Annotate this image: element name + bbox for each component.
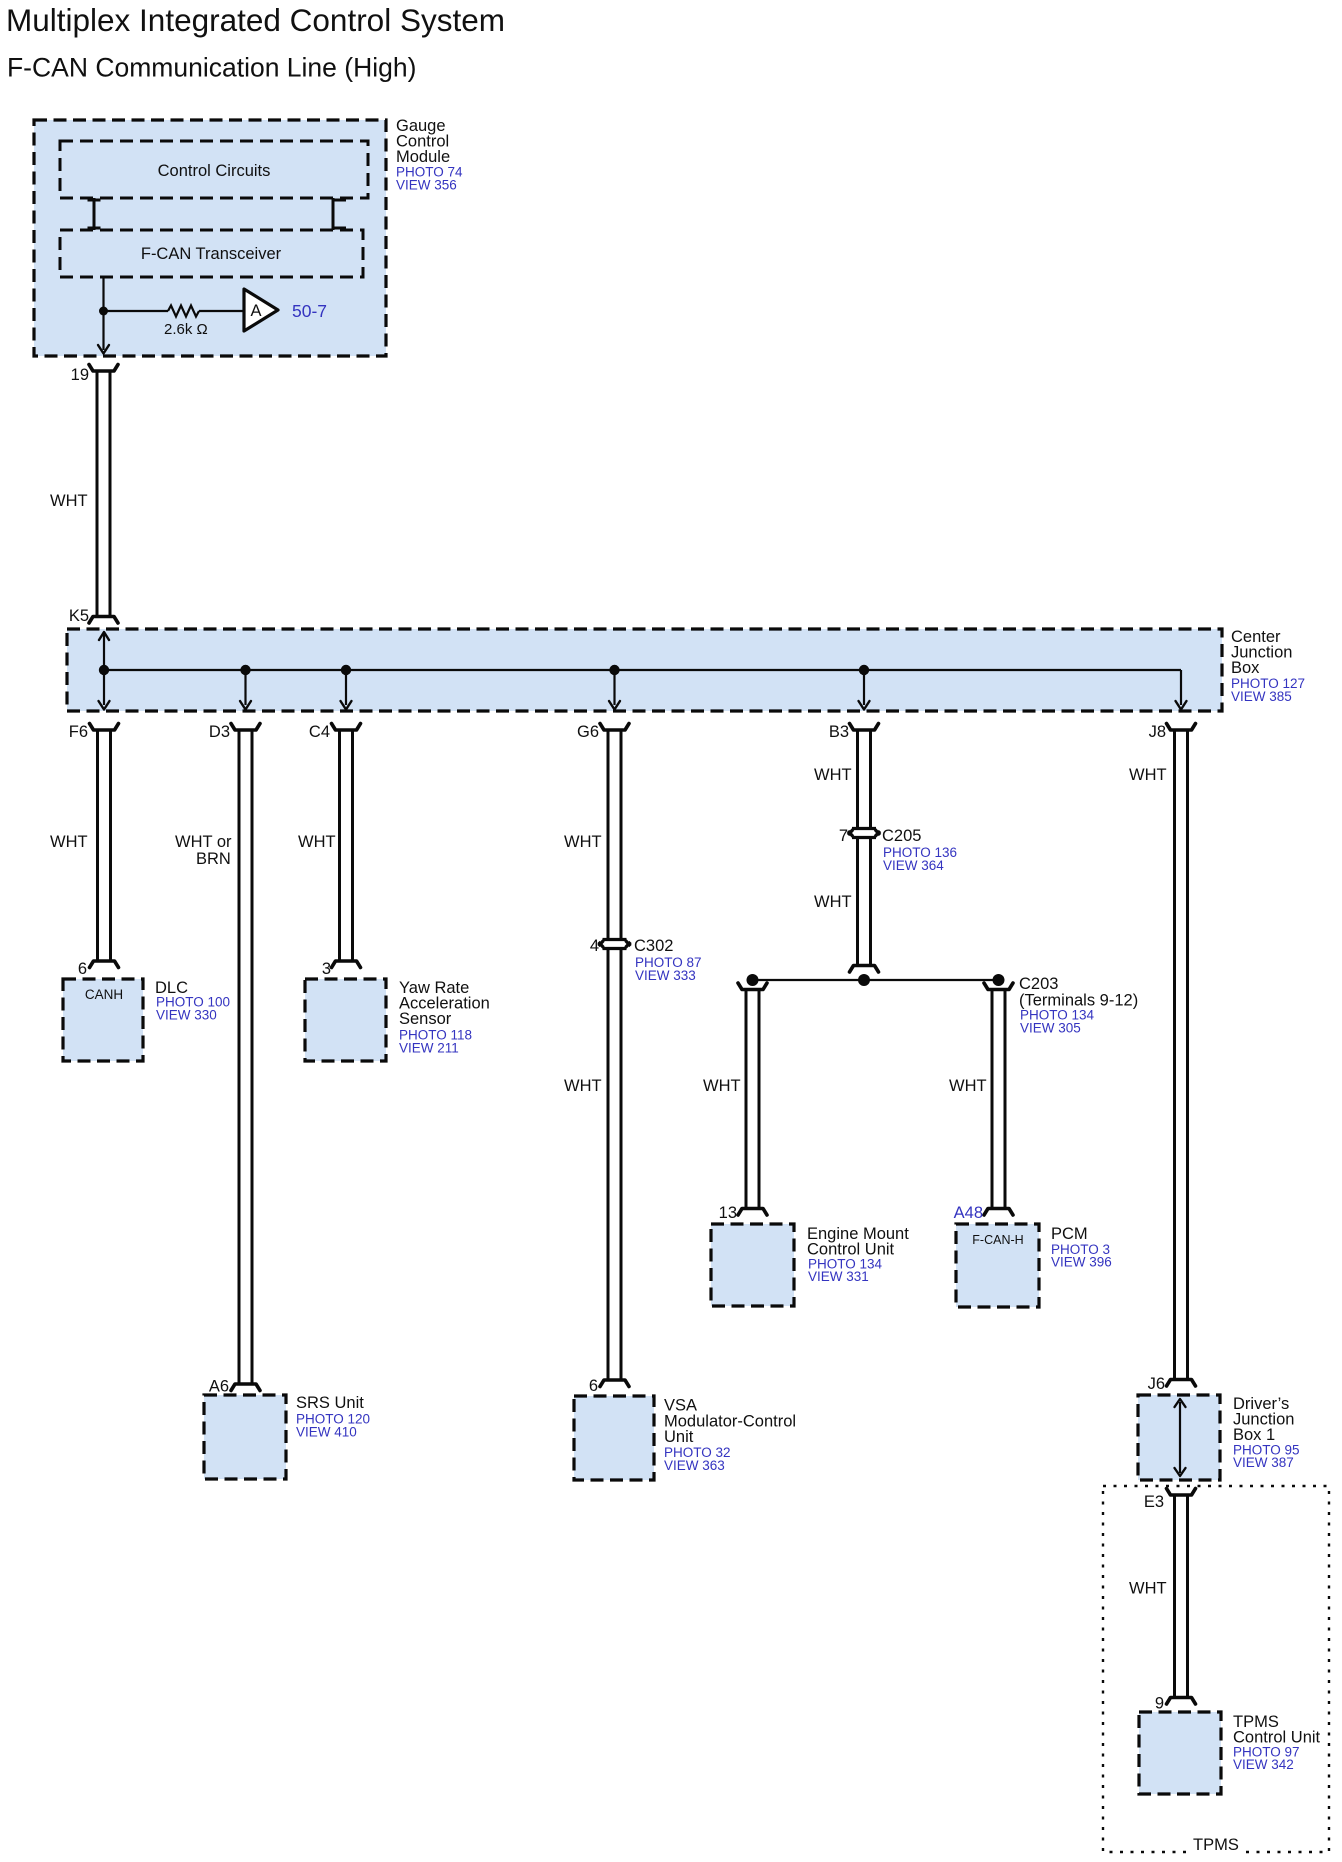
D3 exit arrow — [240, 670, 251, 710]
connector top PCM branch — [984, 983, 1013, 990]
svg-text:G6: G6 — [577, 723, 599, 741]
wire label WHT (C4) — [298, 833, 336, 851]
wire label WHT (J8) — [1129, 766, 1167, 784]
wire label WHT (PCM) — [949, 1077, 987, 1095]
TPMS control unit label — [1233, 1713, 1321, 1772]
pin 6 label VSA — [589, 1377, 598, 1395]
center junction box label — [1231, 628, 1305, 704]
svg-text:VIEW 356: VIEW 356 — [396, 178, 457, 193]
resistor 2.6k ohm — [164, 306, 208, 339]
connector top G6 — [600, 724, 629, 731]
wire label WHT (F6) — [50, 833, 88, 851]
svg-text:C4: C4 — [309, 723, 330, 741]
wire F6 to DLC (WHT) — [98, 730, 111, 961]
svg-text:WHT: WHT — [564, 833, 602, 851]
svg-text:BRN: BRN — [196, 850, 231, 868]
svg-text:PCM: PCM — [1051, 1225, 1088, 1243]
pin A6 label — [209, 1378, 229, 1396]
pin 13 label — [719, 1204, 737, 1222]
PCM label — [1051, 1225, 1112, 1270]
node junction dot — [99, 307, 108, 316]
connector top B3 — [850, 724, 879, 731]
internal connector right (bracket) — [333, 198, 346, 230]
svg-text:4: 4 — [590, 937, 599, 955]
pin 3 label — [322, 960, 331, 978]
svg-text:WHT: WHT — [1129, 766, 1167, 784]
svg-text:Box: Box — [1231, 659, 1260, 677]
svg-text:SRS Unit: SRS Unit — [296, 1394, 364, 1412]
svg-text:7: 7 — [839, 827, 848, 845]
yaw rate acceleration sensor label — [399, 979, 490, 1056]
wire label WHT or BRN — [175, 833, 232, 868]
svg-text:Module: Module — [396, 148, 450, 166]
internal pass-through arrow — [1175, 1399, 1186, 1476]
junction dot G6 — [609, 665, 619, 675]
svg-text:F-CAN Transceiver: F-CAN Transceiver — [141, 245, 282, 263]
wire junction down to module edge — [98, 311, 109, 354]
connector bottom pin A48 — [984, 1209, 1013, 1216]
junction dot engine branch — [747, 974, 759, 986]
connector bottom pin 3 yaw — [332, 961, 361, 968]
C302 label — [634, 937, 702, 983]
wire to resistor — [104, 310, 169, 312]
C205 label — [882, 827, 957, 873]
wire from transceiver down — [102, 277, 104, 311]
wire C205 to junction (WHT) — [858, 838, 871, 966]
pin D3 label — [209, 723, 230, 741]
pin J8 label — [1149, 723, 1166, 741]
pin K5 label — [69, 607, 89, 625]
wire B3 to C205 (WHT) — [858, 730, 871, 829]
wire label WHT (B3 upper) — [814, 766, 852, 784]
pin 19 label — [71, 366, 89, 384]
svg-text:WHT: WHT — [949, 1077, 987, 1095]
in-line connector C205 pin 7 — [848, 829, 880, 838]
pin 6 label — [78, 960, 87, 978]
pin 9 label — [1155, 1695, 1164, 1713]
svg-text:J6: J6 — [1148, 1375, 1165, 1393]
junction dot K5/F6 — [99, 665, 109, 675]
pin C4 label — [309, 723, 330, 741]
control circuits block — [60, 141, 368, 198]
svg-text:VIEW 305: VIEW 305 — [1020, 1021, 1081, 1036]
junction dot C203 — [993, 974, 1005, 986]
svg-text:Control Circuits: Control Circuits — [158, 162, 271, 180]
svg-text:VIEW 363: VIEW 363 — [664, 1458, 725, 1473]
connector top engine branch — [738, 983, 767, 990]
connector top at pin 19 — [89, 365, 118, 372]
svg-text:6: 6 — [589, 1377, 598, 1395]
svg-text:WHT: WHT — [564, 1077, 602, 1095]
svg-text:VIEW 385: VIEW 385 — [1231, 689, 1292, 704]
svg-text:Unit: Unit — [664, 1428, 694, 1446]
svg-text:C205: C205 — [882, 827, 921, 845]
PCM box — [956, 1224, 1039, 1307]
svg-text:19: 19 — [71, 366, 89, 384]
wire label WHT (G6 lower) — [564, 1077, 602, 1095]
C4 exit arrow — [341, 670, 352, 710]
DLC label — [155, 979, 230, 1023]
svg-text:A48: A48 — [954, 1204, 983, 1222]
svg-text:D3: D3 — [209, 723, 230, 741]
junction dot D3 — [240, 665, 250, 675]
F-CAN transceiver block — [60, 230, 363, 277]
svg-text:VIEW 211: VIEW 211 — [399, 1041, 459, 1056]
center junction box — [67, 629, 1222, 711]
DLC box — [63, 979, 143, 1061]
connector bottom pin 6 DLC — [90, 961, 119, 968]
svg-text:F-CAN Communication Line (High: F-CAN Communication Line (High) — [7, 53, 416, 83]
gauge control module box — [34, 120, 386, 356]
wire resistor to amplifier — [199, 310, 244, 312]
pin B3 label — [829, 723, 849, 741]
svg-text:WHT: WHT — [50, 492, 88, 510]
wire C4 to yaw sensor (WHT) — [340, 730, 353, 961]
pin 4 label — [590, 937, 599, 955]
wire G6 to C302 (WHT) — [608, 730, 621, 940]
wire label WHT (TPMS) — [1129, 1580, 1167, 1598]
svg-text:TPMS: TPMS — [1193, 1836, 1239, 1854]
wire D3 to SRS (WHT or BRN) — [239, 730, 252, 1384]
K5 entry arrow — [99, 632, 109, 670]
wire to engine mount control unit (WHT) — [746, 990, 759, 1209]
pin A48 label — [954, 1204, 983, 1222]
svg-text:VIEW 396: VIEW 396 — [1051, 1255, 1112, 1270]
pin E3 label — [1144, 1493, 1164, 1511]
junction dot C4 — [341, 665, 351, 675]
wire label WHT — [50, 492, 88, 510]
pin G6 label — [577, 723, 599, 741]
svg-text:Multiplex Integrated Control S: Multiplex Integrated Control System — [6, 2, 505, 38]
connector top pin E3 — [1167, 1489, 1196, 1496]
connector top C4 — [332, 724, 361, 731]
svg-text:2.6k Ω: 2.6k Ω — [164, 321, 208, 338]
wire to PCM (WHT) — [992, 990, 1005, 1209]
G6 exit arrow — [609, 670, 620, 710]
node 50-7 page reference — [292, 301, 327, 321]
C203 label — [1019, 975, 1138, 1036]
svg-text:WHT: WHT — [814, 766, 852, 784]
svg-text:WHT or: WHT or — [175, 833, 232, 851]
wire J8 to J6 (WHT) — [1175, 730, 1188, 1380]
junction dot B3 — [859, 665, 869, 675]
svg-text:VIEW 387: VIEW 387 — [1233, 1455, 1294, 1470]
SRS unit box — [204, 1395, 286, 1479]
connector top F6 — [90, 724, 119, 731]
VSA modulator-control unit box — [574, 1396, 654, 1480]
wire C302 to VSA (WHT) — [608, 949, 621, 1381]
connector bottom pin A6 SRS — [231, 1384, 260, 1391]
connector top D3 — [231, 724, 260, 731]
svg-text:VIEW 331: VIEW 331 — [808, 1269, 869, 1284]
svg-text:WHT: WHT — [298, 833, 336, 851]
pin F6 label — [69, 723, 88, 741]
SRS unit label — [296, 1394, 370, 1440]
TPMS control unit box — [1139, 1712, 1221, 1794]
bus line in junction box — [104, 669, 1181, 671]
branch bus wire — [753, 979, 999, 981]
svg-text:A6: A6 — [209, 1378, 229, 1396]
connector bottom pin 6 VSA — [600, 1380, 629, 1387]
pin 7 label — [839, 827, 848, 845]
svg-text:F6: F6 — [69, 723, 88, 741]
svg-text:VIEW 333: VIEW 333 — [635, 968, 696, 983]
svg-text:VIEW 330: VIEW 330 — [156, 1008, 217, 1023]
svg-text:9: 9 — [1155, 1695, 1164, 1713]
connector bottom pin 13 — [738, 1209, 767, 1216]
svg-text:50-7: 50-7 — [292, 301, 327, 321]
svg-text:C302: C302 — [634, 937, 673, 955]
svg-text:E3: E3 — [1144, 1493, 1164, 1511]
svg-text:F-CAN-H: F-CAN-H — [972, 1233, 1023, 1247]
svg-text:WHT: WHT — [814, 893, 852, 911]
connector bottom pin J6 — [1167, 1380, 1196, 1387]
svg-text:Box 1: Box 1 — [1233, 1426, 1275, 1444]
svg-text:A: A — [250, 302, 261, 320]
engine mount control unit box — [711, 1224, 794, 1306]
svg-text:VIEW 410: VIEW 410 — [296, 1425, 357, 1440]
op-amp A (page link triangle) — [244, 289, 278, 331]
wire E3 to TPMS control unit (WHT) — [1175, 1495, 1188, 1698]
VSA modulator-control unit label — [664, 1397, 796, 1474]
in-line connector C302 pin 4 — [599, 940, 631, 949]
driver's junction box 1 — [1138, 1395, 1220, 1480]
wire 19 to K5 (WHT) — [97, 371, 110, 616]
svg-text:6: 6 — [78, 960, 87, 978]
svg-text:WHT: WHT — [50, 833, 88, 851]
svg-text:13: 13 — [719, 1204, 737, 1222]
svg-text:C203: C203 — [1019, 975, 1058, 993]
wire label WHT (engine) — [703, 1077, 741, 1095]
svg-text:CANH: CANH — [85, 987, 123, 1002]
connector top J8 — [1167, 724, 1196, 731]
svg-text:WHT: WHT — [1129, 1580, 1167, 1598]
internal connector left (I-beam) — [88, 198, 101, 230]
TPMS system boundary box — [1103, 1486, 1329, 1852]
connector bottom pin 9 — [1167, 1698, 1196, 1705]
gauge control module label — [396, 117, 463, 193]
svg-text:Sensor: Sensor — [399, 1010, 452, 1028]
yaw rate acceleration sensor box — [305, 979, 386, 1061]
wire label WHT (B3 lower) — [814, 893, 852, 911]
svg-text:WHT: WHT — [703, 1077, 741, 1095]
engine mount control unit label — [807, 1225, 909, 1284]
F6 exit arrow — [99, 670, 110, 710]
svg-text:VIEW 342: VIEW 342 — [1233, 1757, 1294, 1772]
pin J6 label — [1148, 1375, 1165, 1393]
svg-text:J8: J8 — [1149, 723, 1166, 741]
svg-text:B3: B3 — [829, 723, 849, 741]
J8 corner exit arrow — [1176, 670, 1187, 710]
TPMS boundary label — [1186, 1836, 1246, 1858]
svg-text:K5: K5 — [69, 607, 89, 625]
junction dot B3 branch — [858, 974, 870, 986]
svg-text:VIEW 364: VIEW 364 — [883, 858, 944, 873]
svg-text:3: 3 — [322, 960, 331, 978]
connector bottom at K5 — [89, 617, 118, 624]
connector bottom B3 branch — [850, 966, 879, 973]
driver's junction box 1 label — [1233, 1395, 1300, 1470]
wire label WHT (G6 upper) — [564, 833, 602, 851]
B3 exit arrow — [859, 670, 870, 710]
